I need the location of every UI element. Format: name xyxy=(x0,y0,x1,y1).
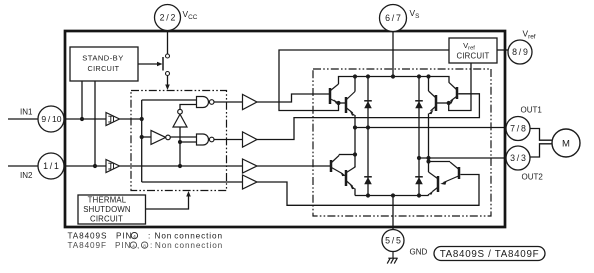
wire standby arrow to switch xyxy=(138,63,160,65)
wire switch to logic box xyxy=(167,76,169,87)
wire IN2 vertical xyxy=(179,127,181,166)
svg-text:,: , xyxy=(137,241,140,250)
driver buffer B1 xyxy=(243,94,258,109)
wire T6 collector riser xyxy=(428,77,430,92)
diode D3 upper-right xyxy=(415,101,423,109)
svg-text:TA8409F: TA8409F xyxy=(68,241,107,250)
node Q1-Q2 base bias xyxy=(336,101,340,105)
transistor Q3 xyxy=(331,155,343,175)
wire Vref bias right xyxy=(449,63,471,111)
node NOT input xyxy=(140,135,144,139)
node Q3 collector xyxy=(353,152,357,156)
switch open contacts xyxy=(163,54,170,76)
wire standby to IN1 xyxy=(81,81,83,119)
transistor Q7 xyxy=(429,172,439,192)
Vref circuit block xyxy=(449,38,497,63)
node OUT1 D1 xyxy=(366,125,370,129)
wire IN1 to buffer4 xyxy=(142,181,243,183)
wire IN1 to NAND1 input xyxy=(142,99,197,101)
wire diode column upper-left xyxy=(367,77,369,128)
svg-text:9 / 10: 9 / 10 xyxy=(41,114,61,124)
svg-text:connection: connection xyxy=(175,241,224,250)
svg-text:2 / 2: 2 / 2 xyxy=(160,13,176,23)
wire T6 emitter to OUT2 xyxy=(428,114,430,159)
node rail D4 xyxy=(417,193,421,197)
wire standby to IN2 xyxy=(94,81,96,166)
arrow thermal into logic box xyxy=(186,191,191,197)
svg-text:CIRCUIT: CIRCUIT xyxy=(90,215,123,224)
svg-text:7 / 8: 7 / 8 xyxy=(510,124,526,134)
wire IN1 buffer to junction xyxy=(120,118,142,120)
svg-text:8 / 9: 8 / 9 xyxy=(512,47,528,57)
wire OUT2 lower branch xyxy=(428,158,430,172)
arrow standby to switch xyxy=(157,62,163,67)
pin circle GND 5/5 xyxy=(382,230,428,257)
node rail T6 xyxy=(426,74,430,78)
svg-text::: : xyxy=(150,241,153,250)
wire T5-T6 base link xyxy=(437,102,449,104)
wire GND column xyxy=(392,196,394,230)
svg-text:1 / 1: 1 / 1 xyxy=(43,161,59,171)
svg-text:PIN: PIN xyxy=(115,241,131,250)
svg-text:8: 8 xyxy=(143,243,146,249)
svg-text:TA8409S / TA8409F: TA8409S / TA8409F xyxy=(440,249,540,260)
svg-text:OUT1: OUT1 xyxy=(521,105,543,114)
pin circle VS 6/7 xyxy=(380,5,420,32)
wire diode column upper-right xyxy=(418,77,420,159)
svg-text:OUT2: OUT2 xyxy=(522,173,544,182)
svg-text:TA8409S: TA8409S xyxy=(68,232,108,241)
pin circle Vref 8/9 xyxy=(508,29,536,65)
svg-text:GND: GND xyxy=(410,248,428,257)
svg-text:3 / 3: 3 / 3 xyxy=(510,153,526,163)
wire T3 collector link xyxy=(339,154,355,156)
inverter U4 pointing up xyxy=(173,109,187,127)
wire IN1 pin lead xyxy=(8,118,106,120)
pin circle OUT1 7/8 xyxy=(506,105,542,140)
svg-text:connection: connection xyxy=(174,232,223,241)
transistor Q5 xyxy=(449,81,457,101)
stand-by circuit block xyxy=(70,47,138,81)
input buffer IN1 (schmitt) xyxy=(106,113,120,126)
svg-text:Non: Non xyxy=(155,241,173,250)
node rail D1 xyxy=(366,74,370,78)
pin circle VCC 2/2 xyxy=(155,5,198,31)
wire T7 emitter to rail xyxy=(428,194,430,196)
wire buffer4 to T8 base xyxy=(257,175,479,206)
wire IN1 vertical bus xyxy=(141,100,143,182)
diode D2 lower-left xyxy=(364,177,372,185)
svg-text:4: 4 xyxy=(132,243,135,249)
node Q5-Q6 base bias xyxy=(447,101,451,105)
wire inverter out to NAND1 xyxy=(180,105,197,110)
svg-text:IN1: IN1 xyxy=(20,108,33,117)
wire T1-T2 base link xyxy=(339,102,346,104)
wire NOT input xyxy=(142,136,151,138)
svg-text:CIRCUIT: CIRCUIT xyxy=(456,52,489,61)
motor M xyxy=(552,129,580,157)
transistor Q4 xyxy=(346,166,355,187)
svg-text:CIRCUIT: CIRCUIT xyxy=(88,64,120,73)
wire NAND1 to buffer1 xyxy=(214,101,242,103)
wire IN2 to buffer3 xyxy=(120,165,243,167)
wire T2 collector riser xyxy=(354,77,356,92)
input buffer IN2 (schmitt) xyxy=(106,160,120,173)
node rail VS xyxy=(391,74,395,78)
wire buffer1 to T1 base xyxy=(257,94,329,102)
transistor Q6 xyxy=(429,91,437,111)
wire VS down to rail xyxy=(392,32,394,77)
wire buffer2 to T5 base xyxy=(257,94,479,140)
pin circle OUT2 3/3 xyxy=(506,146,543,182)
wire OUT2 line xyxy=(419,157,506,159)
wire VCC down to switch xyxy=(167,31,169,55)
node NAND2 input xyxy=(178,140,182,144)
wire top rail xyxy=(339,77,450,85)
wire T4 emitter to rail xyxy=(354,189,356,196)
wire Vref box to pin 8/9 xyxy=(497,49,509,51)
wire Vref bias left xyxy=(279,50,449,111)
driver buffer B2 xyxy=(243,132,258,147)
wire IN2 pin lead xyxy=(8,165,106,167)
wire OUT1 line xyxy=(355,127,506,129)
node standby/IN1 xyxy=(80,117,84,121)
logic dash-dot box xyxy=(131,91,227,191)
svg-text:5 / 5: 5 / 5 xyxy=(385,236,401,246)
svg-text:IN2: IN2 xyxy=(20,171,33,180)
note line 1 xyxy=(68,232,223,241)
wire diode column lower-left xyxy=(367,128,369,196)
pin circle IN2 1/1 xyxy=(20,153,64,180)
transistor Q1 xyxy=(330,84,339,104)
wire NOT out to NAND2 xyxy=(170,136,196,138)
wire T2 emitter to OUT1 xyxy=(354,115,356,128)
svg-text:4: 4 xyxy=(133,234,136,240)
svg-text::: : xyxy=(148,232,151,241)
NAND gate U1 top xyxy=(197,97,215,108)
wire NAND2 to buffer2 xyxy=(214,139,242,141)
svg-text:STAND-BY: STAND-BY xyxy=(82,54,123,63)
wire OUT1 to motor xyxy=(530,129,553,141)
node IN2 branch xyxy=(178,164,182,168)
ground symbol xyxy=(387,252,398,264)
arrow switch into logic box xyxy=(165,85,170,91)
node OUT2 D3 xyxy=(417,156,421,160)
transistor Q8 xyxy=(444,162,460,183)
node OUT2 right xyxy=(426,156,430,160)
part number stadium TA8409S / TA8409F xyxy=(434,247,545,261)
wire OUT1 lower branch xyxy=(354,128,356,168)
note line 2 xyxy=(68,241,224,250)
wire OUT2 to motor xyxy=(530,144,553,157)
wire IN2 to NAND2 input xyxy=(180,141,197,143)
svg-text:M: M xyxy=(562,139,570,150)
node Q8 collector xyxy=(426,159,430,163)
node rail D2 xyxy=(366,193,370,197)
wire T8 collector link xyxy=(429,161,451,163)
diode D4 lower-right xyxy=(415,177,423,185)
svg-text:PIN: PIN xyxy=(116,232,132,241)
node rail GND xyxy=(391,193,395,197)
driver buffer B3 xyxy=(243,159,258,173)
main IC box xyxy=(65,31,505,227)
NAND gate U2 bottom xyxy=(197,134,215,145)
svg-text:THERMAL: THERMAL xyxy=(88,196,127,205)
thermal shutdown circuit block xyxy=(78,195,146,224)
H-bridge dash-dot box xyxy=(313,69,491,216)
wire buffer3 to T3 base xyxy=(257,165,330,167)
node OUT1 left xyxy=(353,125,357,129)
node rail D3 xyxy=(417,74,421,78)
wire thermal to logic box xyxy=(146,195,189,210)
svg-text:Non: Non xyxy=(155,232,173,241)
transistor Q2 xyxy=(346,92,355,114)
NOT gate U3 xyxy=(151,130,170,144)
svg-text:6 / 7: 6 / 7 xyxy=(385,13,401,23)
node rail T2 xyxy=(353,74,357,78)
node standby/IN2 xyxy=(93,164,97,168)
arrowheads xyxy=(157,62,191,197)
node IN1 bus top xyxy=(140,117,144,121)
driver buffer B4 xyxy=(243,175,258,189)
wire diode column lower-right xyxy=(418,158,420,196)
wire bottom rail xyxy=(355,195,429,197)
svg-text:SHUTDOWN: SHUTDOWN xyxy=(83,205,131,214)
diode D1 upper-left xyxy=(364,101,372,109)
pin circle IN1 9/10 xyxy=(20,106,64,132)
